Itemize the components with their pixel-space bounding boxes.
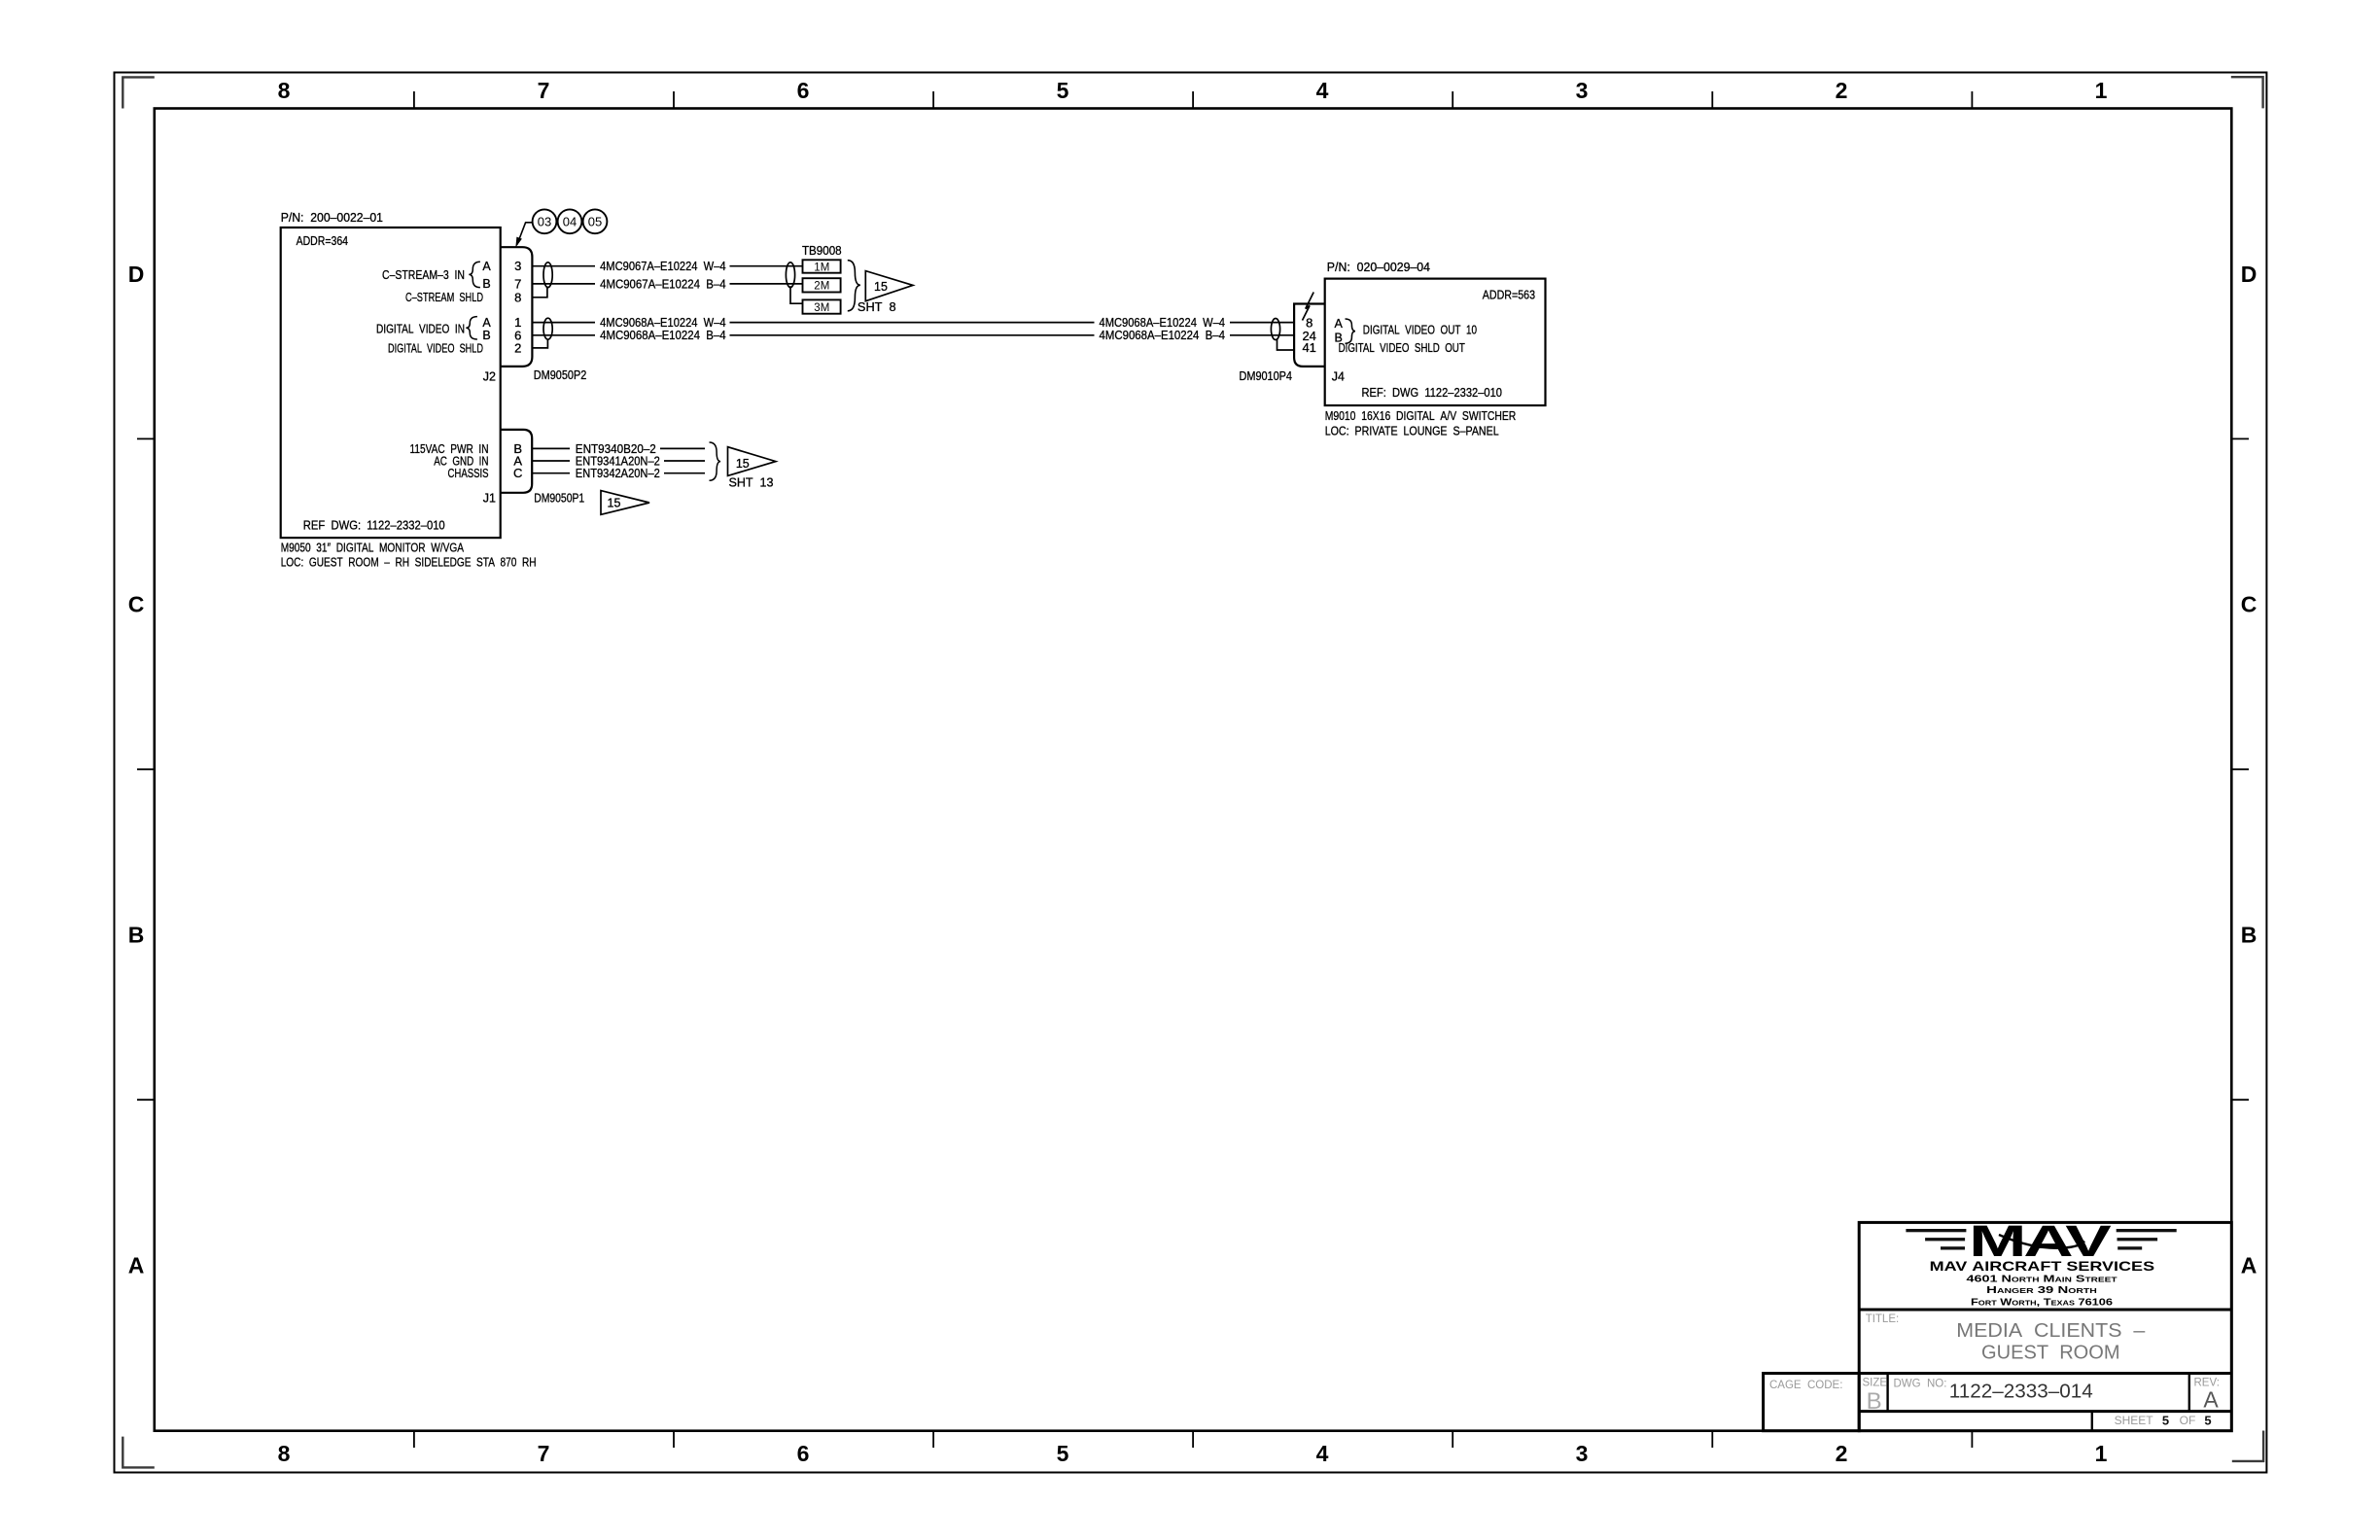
- svg-text:MAV AIRCRAFT SERVICES: MAV AIRCRAFT SERVICES: [1930, 1258, 2155, 1274]
- svg-text:MEDIA CLIENTS –: MEDIA CLIENTS –: [1956, 1320, 2146, 1342]
- svg-text:A: A: [482, 316, 491, 330]
- svg-text:A: A: [2241, 1253, 2257, 1278]
- svg-text:DIGITAL VIDEO IN: DIGITAL VIDEO IN: [376, 323, 465, 336]
- wire TB9008 shield drop to 3M: [790, 286, 803, 303]
- label DIGITAL VIDEO IN: [376, 323, 465, 336]
- label DIGITAL VIDEO SHLD: [388, 341, 483, 355]
- svg-text:3M: 3M: [814, 302, 829, 314]
- svg-text:Fort Worth, Texas 76106: Fort Worth, Texas 76106: [1971, 1298, 2114, 1309]
- terminal block 3M: [803, 299, 841, 314]
- svg-text:4MC9068A–E10224 B–4: 4MC9068A–E10224 B–4: [1100, 329, 1226, 342]
- pin 3: [514, 259, 521, 273]
- label M9050 31in DIGITAL MONITOR W/VGA: [281, 542, 465, 555]
- wire label 4MC9068A-E10224 B-4 (right): [1100, 329, 1226, 342]
- twisted pair symbol at TB9008: [786, 262, 794, 288]
- svg-text:TITLE:: TITLE:: [1866, 1313, 1900, 1325]
- pin label B (C-STREAM): [482, 277, 490, 291]
- svg-text:5: 5: [1057, 1441, 1069, 1466]
- corner trim mark bottom-left: [122, 1437, 155, 1468]
- zone ticks top band: [414, 91, 1973, 109]
- twisted pair symbol DIGITAL VIDEO at monitor: [543, 318, 552, 339]
- pin 1: [514, 315, 521, 330]
- wire pin A AC GND: [532, 460, 705, 462]
- svg-text:8: 8: [278, 78, 291, 103]
- pin 24 (switcher): [1302, 329, 1315, 343]
- wire pin 8 C-STREAM shield stub: [532, 287, 547, 297]
- svg-text:P/N: 200–0022–01: P/N: 200–0022–01: [281, 211, 383, 225]
- svg-text:A: A: [1335, 317, 1344, 331]
- svg-text:15: 15: [608, 496, 621, 509]
- connector break symbol (lightning): [1303, 293, 1314, 321]
- pin label B (DIGITAL VIDEO): [482, 329, 490, 342]
- pin B: [513, 441, 522, 456]
- pin label A (C-STREAM): [482, 260, 491, 273]
- corner trim mark top-right: [2231, 77, 2263, 108]
- svg-text:M9010 16X16 DIGITAL A/V SW: M9010 16X16 DIGITAL A/V SWITCHER: [1325, 409, 1517, 423]
- svg-text:SHEET: SHEET: [2115, 1414, 2154, 1427]
- corner trim mark top-left: [122, 77, 155, 108]
- label CHASSIS: [448, 467, 489, 480]
- svg-text:C: C: [513, 466, 522, 480]
- leader arrow from balloon 03 to connector J2: [515, 223, 532, 248]
- svg-text:3: 3: [1576, 78, 1589, 103]
- wire pin 6 (DIGITAL VIDEO B) long run: [532, 334, 1294, 336]
- svg-text:GUEST ROOM: GUEST ROOM: [1981, 1343, 2120, 1364]
- svg-text:DM9010P4: DM9010P4: [1240, 369, 1293, 383]
- svg-text:8: 8: [278, 1441, 291, 1466]
- zone ticks bottom band: [414, 1431, 1973, 1448]
- pin 2: [514, 340, 521, 355]
- terminal block 2M: [803, 278, 841, 293]
- svg-text:J4: J4: [1332, 370, 1345, 384]
- label REF DWG 1122-2332-010: [303, 519, 445, 533]
- brace DIGITAL VIDEO A/B: [466, 317, 477, 339]
- svg-text:4: 4: [1316, 78, 1329, 103]
- label DIGITAL VIDEO SHLD OUT: [1339, 341, 1465, 355]
- svg-text:LOC: PRIVATE LOUNGE S–PANEL: LOC: PRIVATE LOUNGE S–PANEL: [1325, 425, 1499, 438]
- svg-text:4MC9068A–E10224 B–4: 4MC9068A–E10224 B–4: [600, 329, 726, 342]
- svg-text:7: 7: [538, 78, 550, 103]
- size value B: [1867, 1388, 1882, 1415]
- pin label A (DIGITAL VIDEO): [482, 316, 491, 330]
- brace after TB9008: [848, 261, 860, 311]
- wire pin 2 DIGITAL VIDEO shield stub: [532, 339, 547, 348]
- zone letters right band: [2241, 262, 2257, 1278]
- terminal block 1M: [803, 260, 841, 273]
- zone letters left band: [128, 262, 145, 1278]
- label C-STREAM-3 IN: [382, 268, 465, 282]
- connector J1 shell DM9050P1: [501, 430, 533, 493]
- corner trim mark bottom-right: [2232, 1431, 2263, 1461]
- svg-text:ADDR=364: ADDR=364: [297, 234, 348, 248]
- svg-text:1M: 1M: [814, 262, 829, 273]
- svg-text:D: D: [128, 262, 145, 287]
- wire label 4MC9068A-E10224 W-4 (left): [600, 316, 726, 330]
- label 115VAC PWR IN: [410, 442, 489, 456]
- label DM9010P4: [1240, 369, 1293, 383]
- svg-text:C–STREAM SHLD: C–STREAM SHLD: [405, 291, 483, 304]
- svg-text:1: 1: [2095, 78, 2108, 103]
- title block cage code box: [1764, 1374, 1860, 1431]
- brace C-STREAM A/B: [469, 262, 480, 287]
- svg-text:04: 04: [563, 215, 577, 229]
- svg-text:DIGITAL VIDEO OUT 10: DIGITAL VIDEO OUT 10: [1363, 323, 1477, 336]
- label P/N 020-0029-04: [1327, 261, 1430, 274]
- svg-text:ENT9342A20N–2: ENT9342A20N–2: [576, 467, 660, 480]
- wire label 4MC9067A-E10224 W-4: [600, 260, 726, 273]
- svg-text:B: B: [128, 923, 145, 948]
- pin 8: [514, 290, 521, 304]
- wire pin 3 (C-STREAM A): [532, 265, 802, 267]
- svg-text:DIGITAL VIDEO SHLD: DIGITAL VIDEO SHLD: [388, 341, 483, 355]
- svg-text:A: A: [482, 260, 491, 273]
- svg-text:C–STREAM–3 IN: C–STREAM–3 IN: [382, 268, 465, 282]
- label ADDR=563: [1483, 289, 1535, 302]
- label LOC GUEST ROOM RH SIDELEDGE STA 870 RH: [281, 556, 537, 570]
- brace switcher A/B: [1346, 319, 1356, 343]
- pin label B (switcher): [1335, 331, 1343, 344]
- wire label 4MC9067A-E10224 B-4: [600, 277, 726, 291]
- twisted pair symbol at switcher: [1271, 319, 1279, 340]
- svg-text:SHT 8: SHT 8: [857, 300, 896, 314]
- label REV: [2194, 1378, 2220, 1389]
- balloon 03: [533, 209, 557, 233]
- MAV logo speed lines left: [1906, 1229, 1966, 1250]
- svg-text:4MC9067A–E10224 W–4: 4MC9067A–E10224 W–4: [600, 260, 726, 273]
- label SIZE: [1863, 1378, 1888, 1389]
- svg-text:1: 1: [2095, 1441, 2108, 1466]
- svg-text:03: 03: [538, 215, 551, 229]
- svg-text:6: 6: [797, 1441, 810, 1466]
- svg-text:REF: DWG 1122–2332–010: REF: DWG 1122–2332–010: [1362, 386, 1503, 400]
- svg-text:5: 5: [2204, 1414, 2211, 1428]
- logo address line 2: [1986, 1285, 2097, 1296]
- svg-text:7: 7: [514, 276, 521, 291]
- svg-text:CHASSIS: CHASSIS: [448, 467, 489, 480]
- wire shield drop into pin 41: [1277, 339, 1295, 350]
- svg-text:LOC: GUEST ROOM – RH SIDE: LOC: GUEST ROOM – RH SIDELEDGE STA 870 R…: [281, 556, 537, 570]
- svg-text:REF DWG: 1122–2332–010: REF DWG: 1122–2332–010: [303, 519, 445, 533]
- logo address line 3: [1971, 1298, 2114, 1309]
- svg-text:4: 4: [1316, 1441, 1329, 1466]
- wire label 4MC9068A-E10224 W-4 (right): [1100, 316, 1226, 330]
- svg-text:CAGE CODE:: CAGE CODE:: [1769, 1380, 1842, 1391]
- logo address line 1: [1967, 1275, 2118, 1285]
- title block size box divider: [1888, 1374, 2189, 1431]
- svg-text:2: 2: [514, 340, 521, 355]
- twisted pair symbol C-STREAM: [543, 262, 552, 288]
- wire label ENT9342A20N-2: [576, 467, 660, 480]
- svg-text:6: 6: [797, 78, 810, 103]
- svg-text:TB9008: TB9008: [802, 244, 842, 258]
- wire pin C CHASSIS: [532, 472, 705, 474]
- svg-text:4MC9068A–E10224 W–4: 4MC9068A–E10224 W–4: [600, 316, 726, 330]
- sheet reference flag 15 (DM9050P1): [601, 491, 649, 515]
- label M9010 16X16 DIGITAL A/V SWITCHER: [1325, 409, 1517, 423]
- svg-text:8: 8: [514, 290, 521, 304]
- pin 6: [514, 328, 521, 342]
- switcher box M9010: [1325, 279, 1546, 405]
- wire label ENT9340B20-2: [576, 442, 656, 456]
- label P/N 200-0022-01: [281, 211, 383, 225]
- svg-text:3: 3: [1576, 1441, 1589, 1466]
- label J4: [1332, 370, 1345, 384]
- label J2: [483, 370, 496, 384]
- svg-text:B: B: [1867, 1388, 1882, 1415]
- svg-text:15: 15: [736, 457, 750, 471]
- label J1: [483, 492, 496, 506]
- label DWG NO: [1894, 1379, 1947, 1390]
- svg-text:C: C: [2241, 592, 2257, 617]
- svg-text:SIZE: SIZE: [1863, 1378, 1888, 1389]
- svg-text:1122–2333–014: 1122–2333–014: [1949, 1381, 2093, 1403]
- svg-text:B: B: [482, 277, 490, 291]
- label LOC PRIVATE LOUNGE S-PANEL: [1325, 425, 1499, 438]
- svg-text:DM9050P2: DM9050P2: [534, 368, 587, 382]
- svg-text:B: B: [482, 329, 490, 342]
- svg-text:7: 7: [538, 1441, 550, 1466]
- label REF DWG 1122-2332-010 (switcher): [1362, 386, 1503, 400]
- sheet reference flag 15 SHT 8: [857, 271, 913, 314]
- zone numbers top: [278, 78, 2108, 103]
- svg-text:DM9050P1: DM9050P1: [534, 492, 584, 506]
- pin 8 (switcher): [1306, 315, 1312, 330]
- svg-text:ADDR=563: ADDR=563: [1483, 289, 1535, 302]
- label DM9050P1: [534, 492, 584, 506]
- label CAGE CODE: [1769, 1380, 1842, 1391]
- sheet 5 of 5: [2115, 1414, 2212, 1428]
- svg-text:M9050 31″ DIGITAL MONITOR: M9050 31″ DIGITAL MONITOR W/VGA: [281, 542, 465, 555]
- svg-text:5: 5: [1057, 78, 1069, 103]
- svg-text:A: A: [2203, 1387, 2219, 1413]
- svg-text:4MC9067A–E10224 B–4: 4MC9067A–E10224 B–4: [600, 277, 726, 291]
- pin A: [513, 453, 522, 468]
- MAV logo swoosh: [1999, 1235, 2084, 1248]
- brace power wires: [710, 442, 721, 480]
- balloon 04: [558, 209, 582, 233]
- label AC GND IN: [434, 454, 488, 468]
- wire label ENT9341A20N-2: [576, 454, 660, 468]
- svg-text:4MC9068A–E10224 W–4: 4MC9068A–E10224 W–4: [1100, 316, 1226, 330]
- wire pin 7 (C-STREAM B): [532, 283, 802, 285]
- MAV logo speed lines right: [2117, 1229, 2177, 1250]
- label TB9008: [802, 244, 842, 258]
- svg-text:3: 3: [514, 259, 521, 273]
- svg-text:2: 2: [1836, 1441, 1848, 1466]
- pin 41 (switcher): [1302, 340, 1315, 355]
- logo text MAV AIRCRAFT SERVICES: [1930, 1258, 2155, 1274]
- svg-text:D: D: [2241, 262, 2257, 287]
- rev value A: [2203, 1387, 2219, 1413]
- svg-text:2: 2: [1836, 78, 1848, 103]
- svg-text:41: 41: [1302, 340, 1315, 355]
- svg-text:P/N: 020–0029–04: P/N: 020–0029–04: [1327, 261, 1430, 274]
- svg-text:DIGITAL VIDEO SHLD OUT: DIGITAL VIDEO SHLD OUT: [1339, 341, 1465, 355]
- pin C: [513, 466, 522, 480]
- label ADDR=364: [297, 234, 348, 248]
- connector J4 shell DM9010P4: [1294, 304, 1325, 367]
- dwg number 1122-2333-014: [1949, 1381, 2093, 1403]
- inner border frame: [155, 109, 2232, 1431]
- pin 7: [514, 276, 521, 291]
- svg-text:OF: OF: [2180, 1414, 2196, 1427]
- svg-text:Hanger 39 North: Hanger 39 North: [1986, 1285, 2097, 1296]
- monitor box M9050: [281, 227, 501, 538]
- svg-text:C: C: [128, 592, 145, 617]
- svg-text:15: 15: [874, 280, 888, 294]
- MAV logo letters: [1969, 1216, 2112, 1266]
- wire pin B 115VAC: [532, 447, 705, 449]
- svg-text:2M: 2M: [814, 281, 829, 293]
- svg-text:05: 05: [588, 215, 602, 229]
- title text MEDIA CLIENTS - GUEST ROOM: [1956, 1320, 2146, 1364]
- svg-text:A: A: [128, 1253, 145, 1278]
- label C-STREAM SHLD: [405, 291, 483, 304]
- svg-text:J1: J1: [483, 492, 496, 506]
- wire pin 1 (DIGITAL VIDEO A) long run: [532, 322, 1294, 324]
- title block outline: [1859, 1222, 2231, 1430]
- svg-text:4601 North Main Street: 4601 North Main Street: [1967, 1275, 2118, 1285]
- svg-text:5: 5: [2162, 1414, 2169, 1428]
- zone numbers bottom: [278, 1441, 2108, 1466]
- connector J2 shell DM9050P2: [501, 247, 533, 367]
- sheet reference flag 15 SHT 13: [728, 447, 776, 490]
- wire label 4MC9068A-E10224 B-4 (left): [600, 329, 726, 342]
- svg-text:SHT 13: SHT 13: [729, 476, 774, 490]
- svg-text:J2: J2: [483, 370, 496, 384]
- zone ticks left band: [137, 438, 155, 1100]
- label DIGITAL VIDEO OUT 10: [1363, 323, 1477, 336]
- label TITLE: [1866, 1313, 1900, 1325]
- svg-text:B: B: [2241, 923, 2257, 948]
- svg-text:DWG NO:: DWG NO:: [1894, 1379, 1947, 1390]
- pin label A (switcher): [1335, 317, 1344, 331]
- label DM9050P2: [534, 368, 587, 382]
- balloon 05: [583, 209, 608, 233]
- zone ticks right band: [2231, 438, 2249, 1100]
